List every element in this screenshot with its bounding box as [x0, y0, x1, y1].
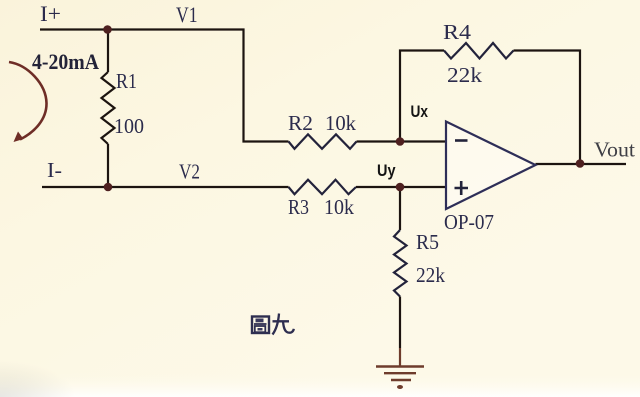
svg-text:22k: 22k — [447, 63, 483, 87]
node dot I+/R1 — [103, 25, 112, 34]
svg-text:R5: R5 — [416, 230, 439, 254]
wire I- bottom rail — [42, 186, 289, 188]
svg-text:100: 100 — [114, 114, 144, 138]
svg-text:OP-07: OP-07 — [444, 210, 494, 234]
九 — [273, 320, 290, 322]
svg-text:R4: R4 — [443, 20, 472, 44]
svg-text:R2: R2 — [288, 111, 313, 135]
caption 圖九 (Figure 9) — [252, 314, 294, 335]
svg-text:10k: 10k — [324, 195, 354, 219]
wire feedback right vertical to output node — [514, 51, 581, 164]
wire R5 to ground — [399, 297, 401, 349]
resistor R5 — [394, 230, 407, 297]
resistor R4 — [444, 43, 514, 59]
svg-text:10k: 10k — [325, 111, 356, 135]
wire R1 bottom lead — [107, 144, 109, 187]
svg-text:I-: I- — [47, 158, 62, 182]
op-amp plus input symbol — [455, 181, 469, 195]
wire R3 to non-inverting input — [356, 186, 446, 188]
wire I+ top rail with corner down to inverting rail — [40, 30, 289, 142]
current loop arrow 4-20mA — [9, 62, 47, 140]
wire R2 to inverting input — [357, 140, 447, 142]
wire lower lead brown — [399, 348, 401, 366]
svg-text:Vout: Vout — [594, 138, 635, 162]
svg-text:4-20mA: 4-20mA — [32, 49, 99, 74]
wire feedback left vertical — [400, 51, 444, 142]
op-amp minus input symbol — [455, 139, 468, 142]
op-amp U1 OP-07 — [446, 122, 536, 210]
svg-text:R1: R1 — [116, 69, 137, 93]
圖 — [252, 317, 269, 334]
wire output — [536, 163, 627, 165]
resistor R2 — [289, 134, 357, 149]
node Ux dot — [396, 137, 405, 146]
ground — [376, 367, 424, 381]
svg-text:Ux: Ux — [411, 102, 429, 121]
svg-text:I+: I+ — [40, 1, 61, 26]
node dot I-/R1 — [104, 183, 113, 192]
node Vout dot — [576, 159, 585, 168]
resistor R1 — [102, 72, 115, 144]
node Uy dot — [396, 183, 405, 192]
wire R1 top lead — [107, 30, 109, 73]
svg-text:V1: V1 — [176, 2, 198, 27]
svg-text:V2: V2 — [179, 160, 200, 184]
wire from non-inverting node down to R5 — [399, 187, 401, 230]
svg-text:22k: 22k — [416, 263, 445, 287]
svg-text:R3: R3 — [288, 195, 309, 219]
svg-text:Uy: Uy — [377, 161, 396, 180]
resistor R3 — [289, 180, 357, 195]
